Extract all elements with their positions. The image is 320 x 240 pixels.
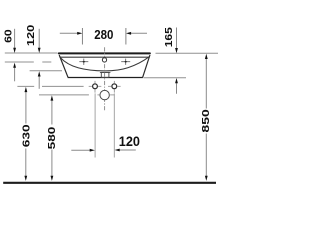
- dimension 280: [60, 32, 79, 34]
- drain level dash right: [110, 94, 114, 96]
- svg-text:850: 850: [200, 109, 211, 133]
- dimension 120 upper: [38, 29, 40, 49]
- drain level dash left: [97, 94, 99, 96]
- svg-text:120: 120: [119, 133, 140, 149]
- centerline: [104, 47, 106, 110]
- dimension 60: [14, 29, 16, 49]
- drain circle: [100, 90, 109, 99]
- svg-text:630: 630: [21, 124, 32, 148]
- basin rim second line: [60, 56, 150, 58]
- tap hole cross left: [79, 59, 88, 65]
- dimension 120 lower: [94, 93, 96, 157]
- svg-text:580: 580: [46, 126, 57, 149]
- basin bottom: [68, 77, 143, 79]
- svg-text:165: 165: [163, 27, 174, 48]
- bowl bottom level extension line: [30, 70, 62, 72]
- tap-hole level extension line: [5, 61, 34, 63]
- dimension 580: [51, 100, 53, 125]
- rim reference line right: [156, 52, 219, 54]
- rim reference line left: [5, 52, 58, 54]
- tap hole cross right: [121, 59, 130, 65]
- fixing hole level extension line: [17, 85, 34, 87]
- basin bottom extension line right: [144, 77, 187, 79]
- floor line: [3, 182, 216, 184]
- svg-text:280: 280: [94, 27, 113, 42]
- drain box: [101, 72, 109, 77]
- basin rim top: [59, 52, 150, 54]
- basin left wall: [59, 55, 68, 77]
- fixing hole right: [108, 81, 121, 93]
- basin right wall: [143, 55, 150, 77]
- inner bowl curve: [60, 57, 149, 71]
- svg-text:120: 120: [25, 24, 36, 46]
- dimension 630: [25, 91, 27, 124]
- dimension 165: [176, 28, 178, 49]
- svg-text:60: 60: [3, 29, 14, 43]
- dimension 850: [205, 58, 207, 109]
- drain level extension line: [39, 94, 89, 96]
- faucet hole: [102, 58, 106, 62]
- fixing hole left: [89, 81, 102, 93]
